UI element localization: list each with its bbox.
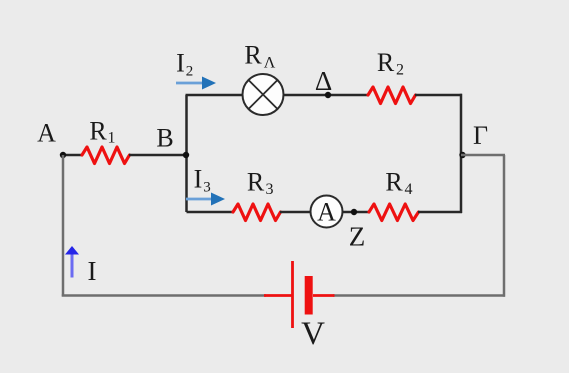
svg-text:R: R [244,41,262,70]
svg-text:I: I [194,165,203,194]
wire A to R1 lead [63,154,83,157]
svg-text:Γ: Γ [473,121,488,150]
battery V [264,261,335,328]
wire right outer vertical [503,155,506,297]
resistor R2 [368,87,416,104]
wire top branch left [186,94,245,97]
wire R2 to corner [415,94,462,97]
svg-text:A: A [317,198,336,227]
wire gamma connector [461,154,505,157]
svg-text:2: 2 [186,64,194,80]
node Z [351,209,357,215]
wire bottom left [62,294,266,297]
wire lamp to R2 [283,94,368,97]
svg-text:I: I [176,49,185,78]
ammeter A [311,196,343,228]
node B [183,152,189,158]
resistor R1 [82,147,130,164]
wire bottom branch left [187,211,235,214]
svg-text:3: 3 [203,180,211,196]
svg-text:R: R [247,168,265,197]
svg-text:B: B [156,124,173,153]
svg-text:R: R [89,117,107,146]
wire R4 to corner [418,211,462,214]
svg-text:R: R [385,168,403,197]
svg-text:Δ: Δ [315,66,332,96]
svg-text:Λ: Λ [264,55,276,72]
current arrow I2 [176,77,216,90]
node A [60,152,66,158]
svg-text:I: I [88,256,97,286]
wire R3 to ammeter [280,211,311,214]
svg-text:3: 3 [266,181,274,198]
current arrow I [65,246,79,278]
svg-text:V: V [301,316,325,352]
node Δ [325,92,331,98]
svg-text:2: 2 [396,62,404,79]
svg-text:A: A [37,119,56,148]
svg-text:4: 4 [405,181,413,198]
wire left outer vertical [62,155,65,297]
svg-text:1: 1 [108,130,116,147]
wire R1 to B [129,154,186,157]
current arrow I3 [186,193,225,206]
wire ammeter to R4 [343,211,371,214]
resistor R3 [233,204,281,221]
resistor R4 [369,204,419,221]
wire bottom right [333,294,505,297]
node Γ [459,152,465,158]
svg-text:R: R [377,48,395,77]
wire B vertical [185,95,188,212]
svg-text:Z: Z [349,222,366,252]
wire right inner vertical [460,94,463,213]
lamp RΛ [243,74,284,115]
